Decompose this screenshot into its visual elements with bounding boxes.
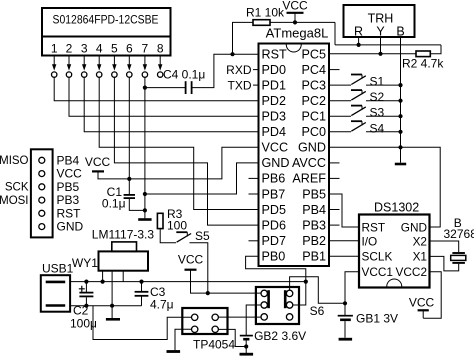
node C3 top: [139, 280, 143, 284]
switch S2: [329, 90, 403, 104]
battery GB1 3V: [338, 312, 398, 338]
wire LCD pin5 to PD6: [114, 77, 258, 225]
svg-text:WY1: WY1: [72, 256, 98, 270]
power VCC mid left: [85, 155, 129, 179]
wire VCC node to chip VCC: [129, 147, 258, 179]
wire TRH pin Y down: [380, 38, 382, 54]
capacitor C4: [145, 68, 205, 95]
svg-text:2: 2: [66, 42, 73, 56]
svg-text:AVCC: AVCC: [292, 156, 326, 170]
svg-text:PB1: PB1: [302, 250, 326, 264]
pin stub PB3: [329, 224, 340, 226]
svg-text:TXD: TXD: [228, 78, 252, 92]
switch S5: [176, 229, 210, 293]
svg-text:8: 8: [157, 42, 164, 56]
pin labels ATmega8L right: [292, 47, 326, 263]
svg-text:X2: X2: [413, 234, 427, 248]
wire PC5 to Y and R2: [329, 53, 416, 55]
svg-text:AREF: AREF: [292, 172, 326, 186]
svg-text:PB4: PB4: [302, 203, 326, 217]
svg-text:SCLK: SCLK: [362, 250, 393, 264]
net label TXD with stub to PD1: [228, 78, 259, 92]
svg-text:GND: GND: [401, 220, 427, 234]
svg-text:LM1117-3.3: LM1117-3.3: [92, 228, 155, 242]
wire VCC rail top right: [335, 44, 441, 46]
svg-text:32768: 32768: [444, 227, 474, 241]
net label RXD with stub to PD0: [226, 63, 258, 77]
svg-text:PC1: PC1: [302, 110, 327, 124]
svg-text:TP4054: TP4054: [193, 338, 235, 352]
wire DS1302 VCC2 to VCC: [423, 272, 441, 318]
wire GND rail to TP4054 pin: [93, 306, 191, 340]
svg-text:S5: S5: [195, 229, 210, 243]
battery GB2 3.6V: [240, 329, 306, 353]
ground GB2: [240, 353, 254, 356]
svg-text:0.1μ: 0.1μ: [102, 197, 126, 211]
svg-text:PC5: PC5: [302, 47, 327, 61]
power VCC S5: [178, 253, 208, 294]
wire TRH pin R to VCC rail: [358, 38, 360, 45]
wire LCD pin2 to PD3: [69, 77, 259, 116]
svg-text:PC0: PC0: [302, 125, 327, 139]
node GB1 column: [343, 301, 347, 305]
pin stub AREF: [329, 177, 340, 179]
node R junction: [357, 43, 361, 47]
pin stub PB7: [249, 193, 259, 195]
IC ATmega8L: [259, 26, 330, 267]
svg-text:100: 100: [167, 219, 187, 233]
switch S1: [329, 75, 403, 89]
svg-text:C4 0.1μ: C4 0.1μ: [163, 68, 205, 82]
svg-text:GB2 3.6V: GB2 3.6V: [254, 329, 306, 343]
svg-text:GND: GND: [262, 156, 290, 170]
svg-text:PD0: PD0: [262, 63, 287, 77]
capacitor C3 4.7u: [135, 282, 174, 312]
wire TP4054 lower left pin to ground: [175, 329, 191, 350]
node S5/VCC junction: [206, 291, 210, 295]
node GB2 minus: [244, 344, 248, 348]
pin stub PB6: [249, 177, 259, 179]
node GND column upper: [143, 192, 147, 196]
svg-text:C2: C2: [73, 304, 89, 318]
svg-text:S012864FPD-12CSBE: S012864FPD-12CSBE: [53, 13, 159, 27]
capacitor C2 100u polarized: [70, 282, 97, 331]
svg-text:RST: RST: [57, 206, 82, 220]
svg-text:PD4: PD4: [262, 125, 287, 139]
svg-text:S6: S6: [310, 304, 325, 318]
regulator LM1117-3.3 WY1: [72, 228, 154, 319]
ground below S4: [395, 163, 406, 166]
node RST junction: [230, 52, 234, 56]
net labels header right: [57, 153, 84, 233]
node Y junction: [378, 52, 382, 56]
svg-text:VCC: VCC: [85, 155, 111, 169]
svg-text:DS1302: DS1302: [374, 201, 419, 215]
svg-text:I/O: I/O: [362, 234, 378, 248]
svg-text:MISO: MISO: [0, 155, 29, 167]
svg-text:R: R: [354, 25, 363, 39]
svg-text:PB0: PB0: [262, 250, 286, 264]
wire chip GND right to DS1302 GND: [329, 147, 440, 227]
ground GB1: [339, 338, 353, 341]
svg-text:1: 1: [51, 42, 58, 56]
svg-text:3: 3: [81, 42, 88, 56]
wire LCD pin3 to PD4: [84, 77, 258, 132]
ground LM1117: [106, 318, 120, 321]
svg-text:PB5: PB5: [302, 187, 326, 201]
svg-text:VCC: VCC: [282, 0, 308, 13]
IC DS1302: [359, 201, 430, 288]
svg-text:S4: S4: [370, 121, 385, 135]
LCD pin arrows and connector circles: [52, 56, 163, 78]
wire C4 to RST net: [192, 54, 258, 87]
svg-text:PB5: PB5: [57, 180, 80, 194]
pin stub PB4: [329, 209, 340, 211]
ISP header connector: [31, 149, 53, 237]
node VCC junction: [127, 177, 131, 181]
wire TRH pin B down switch column: [400, 38, 402, 163]
wire GND rail bottom: [70, 305, 141, 307]
svg-text:SCK: SCK: [5, 182, 29, 194]
svg-text:PC4: PC4: [302, 63, 327, 77]
svg-text:S1: S1: [370, 75, 385, 89]
svg-text:USB1: USB1: [42, 262, 74, 276]
svg-text:R2 4.7k: R2 4.7k: [402, 57, 444, 71]
svg-text:PD3: PD3: [262, 110, 287, 124]
svg-text:PC2: PC2: [302, 94, 327, 108]
node VCC rail end: [304, 280, 308, 284]
svg-text:VCC: VCC: [178, 253, 204, 267]
node LM1117 pin2 gnd: [110, 304, 114, 308]
svg-text:PB3: PB3: [57, 193, 80, 207]
svg-text:VCC: VCC: [57, 167, 83, 181]
svg-text:S2: S2: [370, 90, 385, 104]
svg-text:GND: GND: [298, 141, 326, 155]
resistor R3 100: [157, 207, 187, 243]
wire GB2 plus to S6 row2: [246, 305, 261, 335]
switch S3: [329, 106, 403, 120]
LCD module S012864FPD-12CSBE: [42, 8, 171, 56]
svg-text:X1: X1: [413, 250, 427, 264]
svg-text:RXD: RXD: [226, 63, 252, 77]
pin stub PC4: [329, 69, 340, 71]
svg-text:4.7μ: 4.7μ: [150, 298, 174, 312]
wire PB2 to DS1302 I/O: [329, 240, 359, 242]
wire PB0 under chip to S6: [246, 256, 306, 305]
svg-text:PC3: PC3: [302, 78, 327, 92]
svg-text:RST: RST: [362, 220, 386, 234]
svg-text:5: 5: [111, 42, 118, 56]
svg-text:PB3: PB3: [302, 218, 326, 232]
switch S6 block: [256, 287, 325, 324]
svg-text:7: 7: [142, 42, 149, 56]
svg-text:S3: S3: [370, 106, 385, 120]
power VCC bottom right: [409, 296, 435, 319]
resistor R1 10k: [233, 6, 336, 55]
node GND column lower: [143, 208, 147, 212]
svg-text:PB2: PB2: [302, 234, 326, 248]
wire PB5 to DS1302 RST: [329, 194, 359, 227]
wire TP4054 right pin to S6 row3: [218, 316, 261, 318]
svg-text:TRH: TRH: [368, 12, 394, 26]
svg-text:VCC: VCC: [409, 296, 435, 310]
wire to S6 row1 left: [208, 292, 261, 294]
svg-text:6: 6: [126, 42, 133, 56]
svg-text:B: B: [396, 25, 404, 39]
svg-text:GB1 3V: GB1 3V: [356, 312, 398, 326]
svg-text:PB4: PB4: [57, 153, 80, 167]
wire LCD pin6 to VCC node: [128, 77, 130, 179]
node GND column junction: [398, 145, 402, 149]
svg-text:PD2: PD2: [262, 94, 287, 108]
wire chip GND left to ground column: [145, 163, 259, 194]
pin labels ATmega8L left: [262, 47, 290, 263]
IC TP4054: [182, 308, 235, 352]
svg-text:MOSI: MOSI: [0, 195, 29, 207]
svg-text:4: 4: [96, 42, 103, 56]
wire LCD pin1 to PD2: [54, 77, 258, 100]
svg-text:ATmega8L: ATmega8L: [266, 26, 329, 41]
svg-text:PD1: PD1: [262, 78, 287, 92]
node LM1117 pin1: [101, 280, 105, 284]
wire LCD pin7 ground column: [144, 77, 146, 218]
resistor R2 4.7k: [402, 45, 444, 71]
pin stub AVCC: [329, 162, 340, 164]
wire LCD pin4 to PD5: [99, 77, 258, 209]
node C2 top: [84, 280, 88, 284]
node C2 bottom: [84, 304, 88, 308]
wire DS1302 VCC1 to GB1: [345, 272, 359, 315]
sensor TRH: [344, 5, 415, 39]
pin labels DS1302: [362, 220, 393, 279]
crystal B1 32768: [430, 216, 474, 271]
svg-text:PD5: PD5: [262, 203, 287, 217]
svg-text:Y: Y: [376, 25, 385, 39]
svg-text:PD6: PD6: [262, 218, 287, 232]
ground LCD/C1: [138, 218, 151, 221]
power VCC top: [282, 0, 308, 25]
connector USB1: [41, 262, 74, 312]
wire PB1 to DS1302 SCLK: [329, 255, 359, 257]
pin stub PD7: [249, 240, 259, 242]
svg-text:GND: GND: [57, 220, 84, 234]
wire S6 top right to battery line: [290, 277, 345, 304]
wire R1 to VCC rail corner: [334, 22, 336, 45]
wire GB2 minus to TP4054 lower right pin: [219, 329, 247, 346]
LCD pin numbers 1-8: [51, 42, 164, 56]
node pin7/C4 junction: [143, 86, 147, 90]
svg-text:PD7: PD7: [262, 234, 287, 248]
ground TP4054: [167, 350, 181, 353]
svg-text:VCC1: VCC1: [362, 265, 393, 279]
svg-text:PB7: PB7: [262, 187, 286, 201]
svg-text:R1 10k: R1 10k: [246, 6, 285, 20]
capacitor C1: [102, 179, 145, 211]
svg-text:PB6: PB6: [262, 172, 286, 186]
switch S4: [329, 121, 403, 135]
svg-text:VCC2: VCC2: [396, 265, 427, 279]
wire 5V/VCC rail bottom: [70, 281, 306, 283]
svg-text:VCC: VCC: [262, 141, 289, 155]
svg-text:RST: RST: [262, 47, 287, 61]
